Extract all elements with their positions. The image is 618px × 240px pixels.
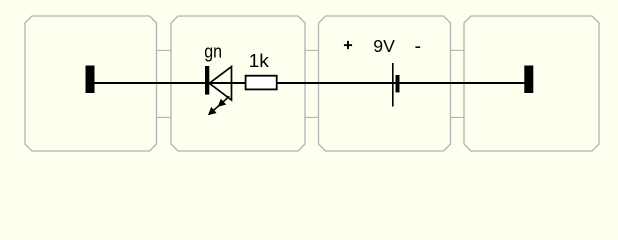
panel frame 3	[319, 16, 451, 151]
connector tab between panel 2 and 3, lower	[305, 116, 319, 118]
connector tab between panel 1 and 2, upper	[157, 49, 172, 51]
svg-text:1k: 1k	[249, 50, 270, 71]
LED D1 emission arrow lower	[208, 104, 221, 115]
battery B1 negative plate (short thick)	[396, 75, 400, 92]
connector tab between panel 3 and 4, lower	[451, 116, 465, 118]
svg-text:gn: gn	[204, 42, 222, 62]
connector tab between panel 3 and 4, upper	[451, 49, 465, 51]
LED D1 triangle	[209, 67, 231, 100]
svg-text:9V: 9V	[373, 36, 395, 56]
battery minus sign	[415, 46, 420, 48]
panel frame 1	[25, 16, 157, 151]
terminal bar right	[524, 66, 533, 94]
LED D1 cathode bar	[205, 66, 209, 95]
panel frame 4	[464, 16, 599, 151]
battery plus sign	[344, 41, 352, 49]
panel frame 2	[171, 16, 305, 151]
resistor R1 body	[246, 76, 277, 90]
connector tab between panel 1 and 2, lower	[157, 116, 172, 118]
connector tab between panel 2 and 3, upper	[305, 49, 319, 51]
battery B1 positive plate (long thin)	[392, 63, 394, 107]
wire	[90, 82, 529, 84]
terminal bar left	[86, 66, 95, 94]
LED D1 emission arrow upper	[218, 96, 230, 107]
